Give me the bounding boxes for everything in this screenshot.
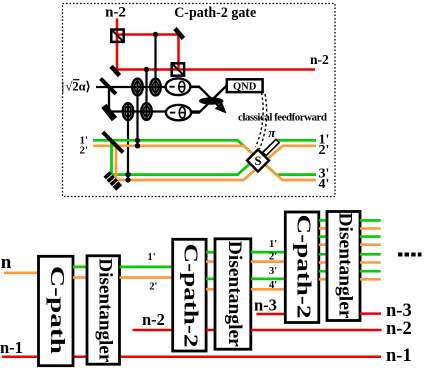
wire red horizontal upper [117,33,179,36]
classical feedforward dashed curve a [256,93,264,148]
beamsplitter dark ellipse at X crossing [199,97,223,104]
svg-text:C-path-2 gate: C-path-2 gate [174,5,257,21]
junction dot on upper red wire [153,32,158,37]
mirror top-right of red loop [173,27,185,40]
wires between C-path-2 and Disentangler 2 [206,252,215,330]
label n-1 right [386,346,412,366]
svg-text:n-2: n-2 [386,319,412,339]
label 2' mid2 [269,252,277,263]
wire red n-2 under second stage [251,329,382,332]
wire red vertical right [177,35,180,70]
wire 2' orange top crossing down [93,146,316,180]
label 1' left [80,135,89,147]
continuation dashes [398,253,422,257]
wire orange n input [4,271,39,274]
wire orange 2' after Disentangler 1 [120,276,173,279]
svg-text:2': 2' [149,282,157,293]
box Disentangler 1 [87,256,120,364]
dashed box border of C-path-2 gate [63,4,336,197]
control dot on 1' [135,138,140,143]
label 2' right [319,143,330,158]
box Disentangler 3 [327,212,360,321]
control dot on 2' [135,143,140,148]
label n-3 right [386,301,412,321]
svg-text:n-2: n-2 [310,52,329,67]
PBS1 polarizing beam splitter box with diagonal [111,30,123,42]
wire green 1' after Disentangler 2 [251,251,285,254]
box C-path-2 first [173,239,206,351]
wire red n-1 long [120,355,382,358]
svg-text:n-3: n-3 [386,301,412,321]
control dot on 4' [125,177,130,182]
wire orange 2' after Disentangler 2 [251,260,285,263]
svg-text:1': 1' [148,252,156,263]
svg-text:n-2: n-2 [142,310,165,329]
control dot on 3' [125,172,130,177]
wire orange 4' after Disentangler 2 [251,288,285,291]
phase shifter theta row2 a [123,103,133,120]
label classical feedforward [238,112,327,124]
phase shifter theta row1 b [150,78,160,95]
wire 4' orange vertical and bottom crossing up [116,146,316,180]
control wire row1 theta1 down to 1' 2' [136,87,138,146]
svg-text:|: | [62,80,65,94]
mirror row2 left [101,104,117,121]
hatched mirror lower left [103,171,122,190]
wire row2 to QND [191,86,227,113]
svg-text:n-3: n-3 [254,296,277,315]
PBS2 polarizing beam splitter box with diagonal [172,63,184,75]
label 2' mid [149,282,157,293]
label 1' mid [148,252,156,263]
label n-2 right [386,319,412,339]
wire 3' green vertical and bottom crossing up [112,140,317,174]
svg-text:π: π [268,125,276,140]
wire 1' green top crossing down [93,140,316,174]
label 1' mid2 [269,239,277,250]
label 3' right [319,167,330,182]
QND box [227,79,263,92]
output wires after Disentangler 3 [360,220,381,279]
wire green 1' after Disentangler 1 [120,266,173,269]
swap element S box [247,150,269,172]
wire red n-1 left [2,355,39,358]
wire red n-1 middle [73,355,87,358]
beam splitter on source line [101,79,116,94]
title C-path-2 gate [174,5,257,21]
svg-text:n-1: n-1 [386,346,412,366]
wire green between C-path and Disentangler [73,266,87,269]
svg-text:n-2: n-2 [105,5,126,21]
pi phase plate [263,139,279,155]
label n bottom input [1,252,12,273]
beam splitter bar on 1' 2' [103,132,123,152]
svg-text:1': 1' [269,239,277,250]
svg-text:√2α⟩: √2α⟩ [66,80,91,94]
svg-text:QND: QND [233,82,257,93]
wire source row1 horizontal [96,86,199,88]
phase shifter minus theta row2 [166,105,191,120]
wire row1 to beamsplitter X [190,87,223,111]
wire green 3' after Disentangler 2 [251,278,285,281]
wires between C-path-2 second and Disentangler 3 [319,220,327,279]
svg-text:S: S [255,154,262,168]
svg-text:classical feedforward: classical feedforward [238,112,327,124]
label 1' right [319,133,330,148]
box C-path-2 second [285,212,319,323]
label n-1 left [0,338,23,357]
label 2' left [80,145,89,157]
phase shifter theta row2 b [141,103,151,120]
svg-text:2': 2' [269,252,277,263]
svg-text:4': 4' [269,280,277,291]
mirror bottom-left of red loop [109,65,121,77]
label 4' right [319,177,330,192]
wire red vertical into PBS1 [116,19,119,70]
control wire from upper red dot through theta [154,35,156,96]
wire red horizontal lower to n-2 output [115,68,315,71]
arrowhead on measured output [215,102,227,114]
label n-2 top [105,5,126,21]
wire orange between C-path and Disentangler [73,276,87,279]
wire red n-3 right [360,312,381,315]
label 4' mid2 [269,280,277,291]
wire vertical from source BS down [108,87,110,112]
svg-text:C-path-2: C-path-2 [180,244,202,348]
label 3' mid2 [269,266,277,277]
svg-text:Disentangler: Disentangler [335,213,356,320]
svg-text:C-path-2: C-path-2 [292,215,314,319]
label n-2 right [310,52,329,67]
wire red n-2 into C-path-2 [133,329,173,332]
box C-path [39,256,74,365]
phase shifter theta row1 a [132,78,142,95]
svg-text:Disentangler: Disentangler [94,258,115,363]
svg-text:C-path: C-path [46,266,68,354]
label pi [268,125,276,140]
classical feedforward dashed curve b [260,94,267,149]
wire red n-3 into C-path-2 second [256,313,285,316]
box Disentangler 2 [215,239,251,349]
svg-text:n: n [1,252,12,273]
label n-2 left [142,310,165,329]
svg-text:4': 4' [319,177,330,192]
svg-text:3': 3' [269,266,277,277]
svg-text:2': 2' [80,145,89,157]
svg-text:2': 2' [319,143,330,158]
control wire from lower red dot through theta [145,70,147,120]
phase shifter minus theta row1 [166,78,191,95]
label n-3 left [254,296,277,315]
wire row2 horizontal [106,110,199,112]
junction dot on lower red wire [144,67,149,72]
svg-text:Disentangler: Disentangler [224,241,245,348]
control wire row2 theta1 down to 3' 4' [127,112,129,181]
svg-text:n-1: n-1 [0,338,23,357]
label coherent state input [62,80,91,94]
